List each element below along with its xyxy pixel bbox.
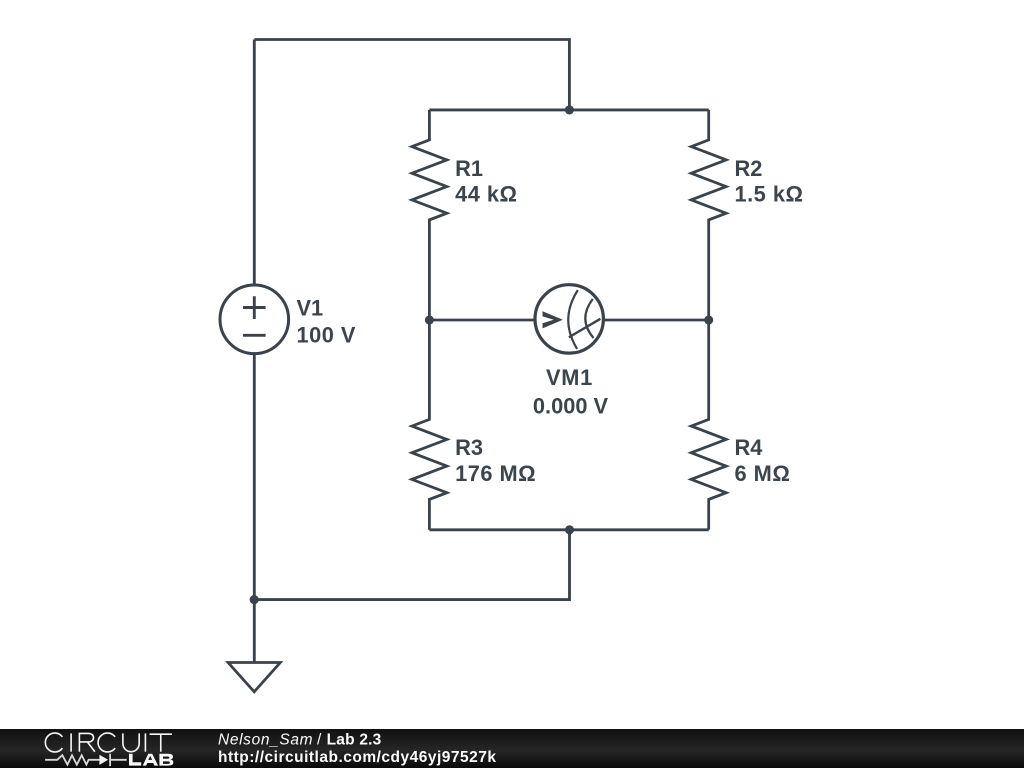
wire V1 bottom lead bbox=[253, 354, 256, 600]
resistor R1 bbox=[412, 110, 447, 320]
logo word CIRCUIT bbox=[45, 733, 172, 752]
footer url bbox=[218, 749, 496, 766]
label V1 bbox=[297, 296, 324, 321]
value 176 MOhm bbox=[455, 461, 536, 486]
node: ground junction bbox=[250, 595, 259, 604]
svg-text:http://circuitlab.com/cdy46yj9: http://circuitlab.com/cdy46yj97527k bbox=[218, 749, 496, 766]
resistor R4 bbox=[691, 320, 726, 530]
wire bridge top rail bbox=[429, 108, 708, 111]
node: bridge top junction bbox=[565, 105, 574, 114]
value 1.5 kOhm bbox=[735, 182, 804, 207]
resistor R3 bbox=[412, 320, 447, 530]
footer bar bbox=[0, 729, 1024, 768]
logo resistor squiggle bbox=[45, 754, 127, 766]
label R1 bbox=[455, 156, 483, 181]
wire middle voltmeter to right bbox=[603, 319, 709, 322]
voltmeter chevron bbox=[543, 311, 563, 328]
value 100 V bbox=[297, 322, 356, 347]
voltage source V1 bbox=[220, 285, 289, 354]
node: bridge left mid junction bbox=[425, 315, 434, 324]
wire top from V1 to bridge top bbox=[254, 40, 569, 110]
wire ground lead bbox=[253, 600, 256, 663]
footer title bbox=[327, 731, 382, 748]
wire middle left to voltmeter bbox=[429, 319, 535, 322]
logo word LAB bbox=[129, 754, 173, 766]
svg-text:Lab 2.3: Lab 2.3 bbox=[327, 731, 382, 748]
node: bridge right mid junction bbox=[704, 315, 713, 324]
voltmeter VM1 bbox=[535, 285, 603, 353]
logo diode bbox=[99, 755, 108, 765]
svg-text:Nelson_Sam: Nelson_Sam bbox=[218, 731, 313, 748]
value 44 kOhm bbox=[455, 182, 517, 207]
value 6 MOhm bbox=[735, 461, 791, 486]
resistor R2 bbox=[691, 110, 726, 320]
wire V1 top lead bbox=[253, 40, 256, 286]
wire bridge bottom rail bbox=[429, 528, 708, 531]
label R4 bbox=[735, 435, 763, 460]
label R2 bbox=[735, 156, 763, 181]
label VM1 bbox=[546, 365, 593, 390]
wire bottom return bbox=[254, 530, 569, 600]
svg-text:/: / bbox=[317, 731, 322, 748]
ground bbox=[228, 663, 280, 692]
value 0.000 V bbox=[533, 393, 609, 418]
footer separator bbox=[317, 731, 322, 748]
node: bridge bottom junction bbox=[565, 525, 574, 534]
label R3 bbox=[455, 435, 483, 460]
footer author bbox=[218, 731, 313, 748]
